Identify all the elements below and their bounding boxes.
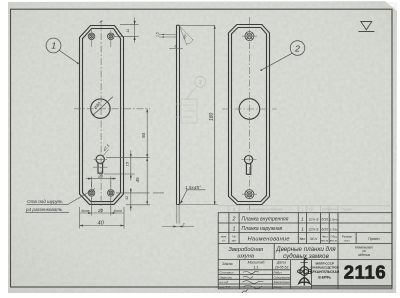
svg-text:11: 11 xyxy=(126,29,130,33)
svg-text:29-05-53: 29-05-53 xyxy=(274,265,289,269)
svg-text:Зверобойная: Зверобойная xyxy=(228,246,263,253)
svg-text:н-к к-б: н-к к-б xyxy=(220,280,229,284)
svg-text:АРХАНГЕЛЬСКАЯ: АРХАНГЕЛЬСКАЯ xyxy=(310,270,340,274)
svg-text:изделия: изделия xyxy=(358,253,371,257)
svg-text:Наименование: Наименование xyxy=(248,237,290,243)
svg-text:3: 3 xyxy=(183,223,185,227)
svg-text:Примеч: Примеч xyxy=(368,237,380,241)
svg-text:Ст-3: Ст-3 xyxy=(309,226,320,231)
svg-text:В-ЕРФь: В-ЕРФь xyxy=(318,275,331,279)
svg-text:6/10: 6/10 xyxy=(321,218,328,222)
svg-text:3: 3 xyxy=(199,80,202,86)
svg-text:гост: гост xyxy=(344,239,350,243)
svg-text:р4 раззенковать: р4 раззенковать xyxy=(25,207,63,212)
svg-text:6/10: 6/10 xyxy=(321,227,328,231)
svg-text:15: 15 xyxy=(125,161,130,166)
svg-text:Дата: Дата xyxy=(276,261,286,265)
svg-text:1:1: 1:1 xyxy=(254,265,259,269)
svg-text:1: 1 xyxy=(301,217,304,222)
svg-text:инж Т-б: инж Т-б xyxy=(220,285,231,289)
svg-text:45: 45 xyxy=(135,177,140,183)
svg-text:Ст-3: Ст-3 xyxy=(309,217,320,222)
svg-text:1: 1 xyxy=(232,226,235,232)
svg-text:20: 20 xyxy=(97,208,103,213)
svg-text:4отв: 4отв xyxy=(81,209,90,213)
svg-text:1,5х45°: 1,5х45° xyxy=(185,185,201,190)
svg-text:Заказ: Заказ xyxy=(222,261,233,266)
svg-text:шхуна: шхуна xyxy=(237,254,254,260)
svg-text:40: 40 xyxy=(98,220,105,226)
svg-text:Составил: Составил xyxy=(220,271,234,275)
svg-text:Гр: Гр xyxy=(309,208,313,212)
svg-text:1: 1 xyxy=(301,226,304,231)
svg-text:Судоремонт: Судоремонт xyxy=(274,275,292,279)
svg-text:Дверные планки для: Дверные планки для xyxy=(275,246,336,253)
svg-text:Чертили: Чертили xyxy=(220,275,233,279)
svg-text:М-л: М-л xyxy=(310,237,317,241)
svg-text:1: 1 xyxy=(51,41,56,51)
svg-text:стболты: стболты xyxy=(322,208,338,212)
svg-text:1,5: 1,5 xyxy=(156,32,160,37)
svg-text:50: 50 xyxy=(141,132,146,138)
svg-text:Планкапрокладная: Планкапрокладная xyxy=(247,207,283,212)
svg-text:вес кг: вес кг xyxy=(330,239,337,243)
svg-text:180: 180 xyxy=(209,112,215,121)
svg-text:Кво: Кво xyxy=(300,237,306,241)
svg-text:11: 11 xyxy=(124,196,129,200)
svg-text:2116: 2116 xyxy=(344,261,387,282)
svg-text:дет: дет xyxy=(232,239,237,243)
svg-text:20: 20 xyxy=(97,173,103,178)
svg-text:ГЛАВРЫБСУДСТРОЙ: ГЛАВРЫБСУДСТРОЙ xyxy=(311,266,339,270)
svg-text:2: 2 xyxy=(231,217,235,223)
svg-text:1: 1 xyxy=(301,208,303,212)
svg-text:Масштаб: Масштаб xyxy=(248,261,266,265)
svg-text:Планка внутренняя: Планка внутренняя xyxy=(242,216,289,222)
svg-text:Копия: Копия xyxy=(274,285,283,289)
svg-text:Отв под шурупь: Отв под шурупь xyxy=(27,199,63,204)
svg-text:МЛЛЯ-СССР: МЛЛЯ-СССР xyxy=(316,262,334,266)
svg-text:прокл: прокл xyxy=(342,208,352,212)
svg-text:4отв: 4отв xyxy=(114,209,123,213)
svg-text:Планка наружная: Планка наружная xyxy=(242,226,283,232)
svg-text:1,50и: 1,50и xyxy=(330,227,338,231)
svg-text:1,5тн: 1,5тн xyxy=(329,218,338,222)
svg-text:Рабоч: Рабоч xyxy=(274,271,283,275)
svg-text:6: 6 xyxy=(175,44,177,48)
svg-text:вес кг: вес кг xyxy=(321,239,328,243)
svg-text:2: 2 xyxy=(294,43,300,53)
svg-text:Заключение: Заключение xyxy=(274,280,291,284)
